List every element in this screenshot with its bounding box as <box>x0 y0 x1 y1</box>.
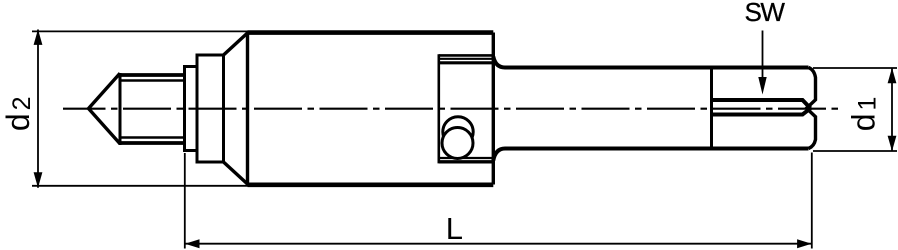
svg-text:L: L <box>446 211 463 246</box>
svg-text:SW: SW <box>745 0 786 27</box>
svg-text:d1: d1 <box>846 94 882 132</box>
svg-text:d2: d2 <box>0 93 36 131</box>
